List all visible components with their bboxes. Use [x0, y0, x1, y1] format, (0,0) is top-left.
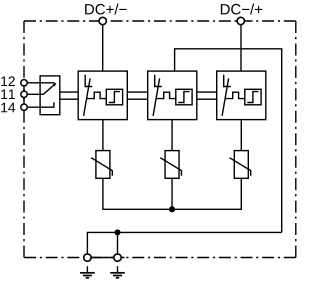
label 11 [1, 90, 15, 99]
terminal DC-/+ [237, 17, 244, 24]
junction dot ground rail [114, 229, 120, 235]
wire ground rail to earth terminal 2 [117, 232, 119, 254]
earth terminal 2 [114, 254, 121, 261]
varistor MOV3 [230, 151, 251, 179]
wire link between relay terminals [23, 81, 25, 110]
wire relay to SPD1 (upper) [60, 91, 78, 93]
contact 14 line [27, 102, 54, 107]
wire solid segment between earth terminals [87, 257, 124, 259]
terminal 12 [21, 80, 27, 86]
wire SPD2 top to right-side rail down to ground rail [175, 49, 282, 233]
wire MOV2 to rail junction [171, 178, 173, 209]
SPD arrester U3 [217, 71, 266, 120]
label DC-/+ [221, 4, 262, 15]
terminal 11 [21, 91, 27, 97]
wire varistor common rail [103, 178, 241, 209]
contact 11 line and blade [27, 83, 56, 94]
varistor MOV2 [160, 151, 181, 179]
label DC+/- [85, 4, 126, 15]
junction dot varistor rail [169, 206, 175, 212]
enclosure dash-dot border [24, 21, 296, 258]
ground symbol 2 [110, 266, 125, 278]
wire SPD1 to SPD2 (lower) [127, 98, 147, 100]
wire SPD2 bottom to varistor MOV2 [171, 120, 173, 151]
contact 12 line [27, 82, 54, 84]
wire SPD1 to SPD2 (upper) [127, 91, 147, 93]
varistor MOV1 [91, 151, 112, 179]
wire DC+/- terminal to SPD1 top [102, 21, 104, 71]
SPD arrester U2 [148, 71, 197, 120]
label 14 [1, 103, 15, 112]
ground symbol 1 [80, 266, 95, 278]
wire relay to SPD1 (lower) [60, 98, 78, 100]
label 12 [1, 76, 15, 86]
wire DC-/+ terminal to SPD3 top [240, 21, 242, 71]
earth terminal 1 [84, 254, 91, 261]
wire SPD3 bottom to varistor MOV3 [240, 120, 242, 151]
SPD arrester U1 [78, 71, 127, 120]
remote signalling changeover contact box [27, 76, 60, 115]
wire SPD2 to SPD3 (upper) [197, 91, 217, 93]
wire ground rail [87, 232, 281, 254]
wire SPD1 bottom to varistor MOV1 [102, 120, 104, 151]
wire SPD2 to SPD3 (lower) [197, 98, 217, 100]
terminal DC+/- [99, 17, 106, 24]
terminal 14 [21, 104, 27, 110]
blade arrowhead [52, 83, 56, 87]
